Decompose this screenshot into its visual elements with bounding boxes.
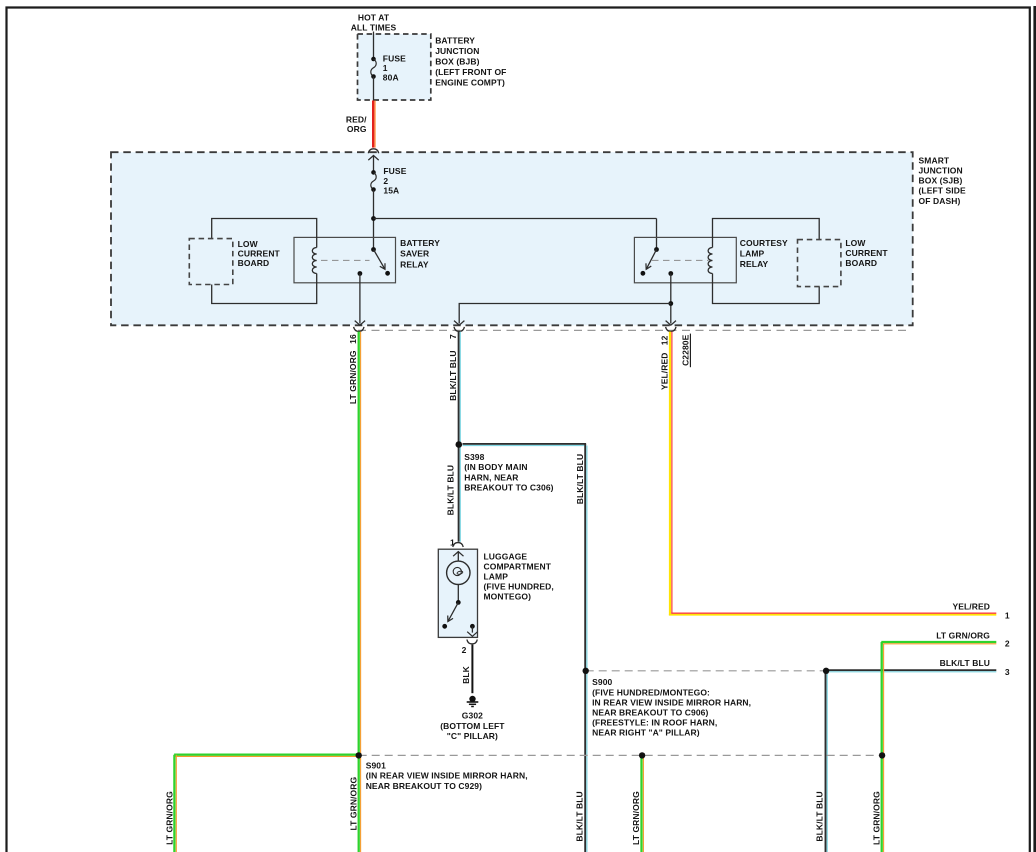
- svg-text:BLK: BLK: [461, 665, 471, 684]
- svg-text:BOARD: BOARD: [845, 258, 877, 268]
- svg-text:LT GRN/ORG: LT GRN/ORG: [348, 350, 358, 404]
- junction node courtesy output rail: [668, 301, 673, 306]
- courtesy lamp relay coil loop to low current board: [713, 219, 820, 304]
- svg-text:ORG: ORG: [347, 124, 367, 134]
- lamp entry arrow pin 1: [453, 552, 463, 557]
- low current board (left, dashed): [189, 239, 233, 285]
- svg-text:(FIVE HUNDRED/MONTEGO:: (FIVE HUNDRED/MONTEGO:: [592, 687, 710, 697]
- svg-text:2: 2: [462, 645, 467, 655]
- svg-text:2: 2: [1005, 639, 1010, 649]
- courtesy lamp relay coil: [708, 248, 712, 274]
- svg-text:BOARD: BOARD: [238, 258, 270, 268]
- svg-text:"C" PILLAR): "C" PILLAR): [447, 731, 498, 741]
- svg-text:JUNCTION: JUNCTION: [919, 166, 963, 176]
- svg-text:(LEFT FRONT OF: (LEFT FRONT OF: [435, 67, 506, 77]
- exit arrow pin 16: [355, 321, 365, 326]
- connector C2280E dashed line: [358, 329, 906, 331]
- svg-text:RELAY: RELAY: [400, 260, 429, 270]
- entry arrow into SJB: [368, 156, 378, 161]
- splice node S398 dot: [456, 441, 463, 448]
- lamp switch output contact pin 2: [470, 624, 475, 629]
- wire bulb to lamp switch: [457, 585, 459, 603]
- svg-text:LAMP: LAMP: [484, 572, 509, 582]
- junction node fuse2 output: [371, 216, 376, 221]
- lamp switch: [456, 600, 461, 605]
- svg-text:BLK/LT BLU: BLK/LT BLU: [448, 350, 458, 400]
- wire battery saver output to pin 16: [359, 274, 361, 324]
- wire hot feed into BJB: [373, 32, 375, 60]
- exit arrow pin 12: [666, 321, 676, 326]
- svg-text:NEAR BREAKOUT TO C929): NEAR BREAKOUT TO C929): [366, 781, 482, 791]
- ground G302: [469, 696, 475, 702]
- svg-text:BREAKOUT TO C306): BREAKOUT TO C306): [464, 483, 553, 493]
- svg-text:C2280E: C2280E: [681, 334, 691, 366]
- exit arrow pin 7: [454, 321, 464, 326]
- svg-text:S900: S900: [592, 677, 612, 687]
- battery saver relay coil: [312, 248, 316, 274]
- connector arc pin 12: [666, 327, 676, 332]
- svg-text:80A: 80A: [383, 72, 399, 82]
- svg-text:(LEFT SIDE: (LEFT SIDE: [919, 186, 967, 196]
- wire BLK/LT BLU down from S900 branch to bottom: [825, 671, 827, 852]
- lamp bulb: [447, 561, 470, 584]
- wire down to courtesy relay switch: [656, 219, 658, 250]
- svg-text:LOW: LOW: [845, 238, 866, 248]
- svg-text:HARN, NEAR: HARN, NEAR: [464, 472, 518, 482]
- svg-text:3: 3: [1005, 667, 1010, 677]
- svg-text:RELAY: RELAY: [740, 259, 769, 269]
- svg-text:LAMP: LAMP: [740, 249, 765, 259]
- rail to pin 7: [459, 304, 671, 324]
- svg-text:BLK/LT BLU: BLK/LT BLU: [445, 465, 455, 515]
- low current board (right, dashed): [798, 240, 841, 287]
- battery saver relay switch: [371, 247, 376, 252]
- fuse F2 (15A): [371, 170, 376, 175]
- splice node S901 dot: [356, 752, 362, 758]
- wire LT GRN/ORG down from pin 2 run to bottom: [881, 642, 883, 852]
- svg-text:S398: S398: [464, 452, 484, 462]
- svg-text:ALL TIMES: ALL TIMES: [351, 23, 397, 33]
- connector arc lamp pin 1: [453, 543, 463, 547]
- svg-text:15A: 15A: [383, 186, 399, 196]
- svg-text:BATTERY: BATTERY: [400, 238, 440, 248]
- wire LT GRN/ORG pin 16 down to S901 and bottom: [358, 332, 360, 852]
- svg-text:LT GRN/ORG: LT GRN/ORG: [936, 631, 990, 641]
- wire RED/ORG from BJB to SJB: [372, 101, 374, 148]
- svg-text:LT GRN/ORG: LT GRN/ORG: [165, 791, 175, 845]
- wire from SJB entry to fuse 2: [373, 155, 375, 172]
- svg-text:BLK/LT BLU: BLK/LT BLU: [815, 791, 825, 841]
- wire fuse 2 output to node: [373, 190, 375, 250]
- wire BLK/LT BLU branch S398 to right: [463, 443, 587, 445]
- courtesy lamp relay box: [634, 237, 736, 282]
- battery junction box BJB (dashed, blue fill): [358, 34, 431, 100]
- connector arc lamp pin 2: [467, 640, 477, 644]
- svg-text:YEL/RED: YEL/RED: [659, 353, 669, 391]
- svg-text:MONTEGO): MONTEGO): [484, 592, 532, 602]
- connector C2280E entry arc at SJB top: [368, 149, 378, 153]
- dashed splice line S900: [586, 670, 826, 672]
- wire LT GRN/ORG left branch down to bottom: [173, 755, 175, 852]
- dashed splice line S901: [359, 754, 882, 756]
- smart junction box SJB (dashed, blue fill): [111, 152, 913, 325]
- splice node S900 dot: [583, 668, 589, 674]
- svg-text:LT GRN/ORG: LT GRN/ORG: [349, 777, 359, 831]
- node dot pin2 wire at S901 line: [879, 752, 885, 758]
- svg-text:S901: S901: [366, 761, 386, 771]
- svg-text:NEAR RIGHT "A" PILLAR): NEAR RIGHT "A" PILLAR): [592, 727, 700, 737]
- wire courtesy output down to rail: [670, 274, 672, 324]
- svg-text:BOX (BJB): BOX (BJB): [435, 57, 479, 67]
- battery saver relay output contact: [358, 271, 363, 276]
- wire LT GRN/ORG to right edge (pin 2): [881, 641, 996, 643]
- svg-text:OF DASH): OF DASH): [919, 196, 961, 206]
- svg-text:SAVER: SAVER: [400, 249, 429, 259]
- battery saver relay coil-switch dashed link: [321, 259, 370, 261]
- svg-text:G302: G302: [462, 710, 483, 720]
- wire BLK lamp to ground: [471, 645, 473, 694]
- svg-text:ENGINE COMPT): ENGINE COMPT): [435, 77, 505, 87]
- svg-text:BATTERY: BATTERY: [435, 36, 475, 46]
- wire YEL/RED pin 12 down and right to edge: [669, 332, 671, 616]
- battery saver relay coil loop to low current board: [212, 219, 317, 304]
- luggage compartment lamp box: [438, 549, 477, 637]
- wire BLK/LT BLU branch down to S900 and bottom: [584, 444, 586, 852]
- courtesy lamp relay output contact: [668, 271, 673, 276]
- svg-text:LUGGAGE: LUGGAGE: [484, 552, 528, 562]
- svg-text:(FIVE HUNDRED,: (FIVE HUNDRED,: [484, 582, 554, 592]
- svg-text:(IN REAR VIEW INSIDE MIRROR HA: (IN REAR VIEW INSIDE MIRROR HARN,: [366, 771, 528, 781]
- wire node to courtesy lamp relay: [374, 218, 657, 220]
- svg-text:COURTESY: COURTESY: [740, 238, 788, 248]
- fuse F1 (80A): [371, 57, 376, 62]
- svg-text:COMPARTMENT: COMPARTMENT: [484, 562, 552, 572]
- connector arc pin 7: [454, 327, 464, 332]
- connector arc pin 16: [354, 327, 364, 332]
- node dot S900 right branch: [823, 668, 829, 674]
- wire LT GRN/ORG down from S901 line to bottom: [640, 755, 642, 852]
- svg-text:12: 12: [659, 335, 669, 345]
- battery saver relay box: [294, 237, 396, 282]
- svg-text:1: 1: [450, 538, 455, 548]
- svg-text:HOT AT: HOT AT: [358, 13, 390, 23]
- svg-text:YEL/RED: YEL/RED: [952, 601, 990, 611]
- svg-text:7: 7: [448, 334, 458, 339]
- wire BLK/LT BLU to right edge (pin 3): [826, 669, 996, 671]
- svg-text:IN REAR VIEW INSIDE MIRROR HAR: IN REAR VIEW INSIDE MIRROR HARN,: [592, 697, 751, 707]
- svg-text:(FREESTYLE: IN ROOF HARN,: (FREESTYLE: IN ROOF HARN,: [592, 717, 717, 727]
- wire LT GRN/ORG S901 branch left: [174, 754, 359, 756]
- svg-text:BOX (SJB): BOX (SJB): [919, 176, 963, 186]
- svg-text:LT GRN/ORG: LT GRN/ORG: [871, 791, 881, 845]
- svg-text:CURRENT: CURRENT: [845, 248, 888, 258]
- svg-text:JUNCTION: JUNCTION: [435, 46, 479, 56]
- wire BLK/LT BLU pin 7 down to lamp: [458, 332, 460, 542]
- svg-text:BLK/LT BLU: BLK/LT BLU: [575, 454, 585, 504]
- courtesy lamp relay switch: [654, 247, 659, 252]
- svg-text:1: 1: [1005, 610, 1010, 620]
- svg-text:2: 2: [383, 176, 388, 186]
- courtesy lamp relay coil-switch dashed link: [652, 259, 709, 261]
- lamp exit arrow pin 2: [467, 632, 477, 637]
- svg-text:NEAR BREAKOUT TO C906): NEAR BREAKOUT TO C906): [592, 707, 708, 717]
- svg-text:LT GRN/ORG: LT GRN/ORG: [631, 791, 641, 845]
- svg-text:SMART: SMART: [919, 155, 950, 165]
- svg-text:(BOTTOM LEFT: (BOTTOM LEFT: [440, 721, 505, 731]
- svg-text:16: 16: [348, 334, 358, 344]
- svg-text:FUSE: FUSE: [383, 166, 406, 176]
- wire fuse 1 output: [373, 77, 375, 101]
- svg-text:BLK/LT BLU: BLK/LT BLU: [940, 658, 990, 668]
- node dot green departs S901 line: [639, 752, 645, 758]
- svg-text:BLK/LT BLU: BLK/LT BLU: [575, 791, 585, 841]
- svg-text:(IN BODY MAIN: (IN BODY MAIN: [464, 462, 527, 472]
